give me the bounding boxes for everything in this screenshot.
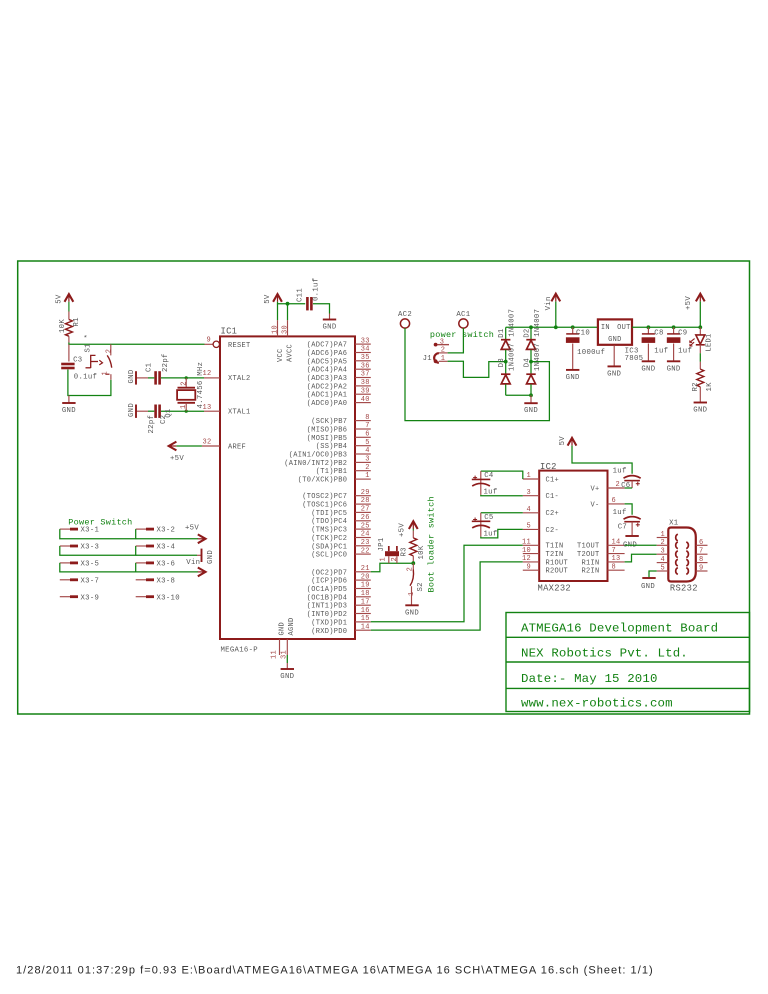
svg-text:(T0/XCK)PB0: (T0/XCK)PB0	[298, 477, 348, 485]
svg-text:6: 6	[612, 497, 617, 505]
IC1 pin 24 (TCK)PC2	[355, 537, 371, 539]
capacitor C4 1uf	[481, 471, 523, 479]
svg-text:XTAL2: XTAL2	[228, 375, 251, 383]
ground right of X3-4	[197, 554, 202, 556]
X1 pin 4	[657, 562, 669, 564]
svg-text:14: 14	[612, 539, 621, 547]
svg-text:(ICP)PD6: (ICP)PD6	[311, 578, 347, 586]
svg-text:1uf: 1uf	[613, 509, 627, 517]
svg-text:27: 27	[361, 506, 370, 514]
wire T1OUT to X1 pin2	[625, 544, 657, 546]
IC1 pin 20 (ICP)PD6	[355, 579, 371, 581]
svg-text:(TMS)PC3: (TMS)PC3	[311, 527, 347, 535]
svg-text:10K: 10K	[418, 545, 426, 559]
svg-text:MAX232: MAX232	[538, 584, 571, 594]
svg-text:11: 11	[522, 539, 531, 547]
wire C6 to V+ pin	[625, 487, 633, 489]
IC1 pin 39 (ADC1)PA1	[355, 393, 371, 395]
svg-text:37: 37	[361, 371, 370, 379]
svg-text:(TCK)PC2: (TCK)PC2	[311, 535, 347, 543]
IC1 pin 35 (ADC5)PA5	[355, 360, 371, 362]
supply +5V arrow (regulator output)	[698, 325, 702, 329]
svg-text:1: 1	[526, 472, 531, 480]
connector X1 DB9 shell	[668, 528, 696, 582]
ground below C10	[566, 369, 579, 371]
connector pin X3-7	[60, 579, 70, 581]
svg-text:GND: GND	[405, 609, 419, 617]
svg-text:1: 1	[101, 371, 109, 376]
svg-text:IC2: IC2	[540, 462, 557, 472]
svg-text:1: 1	[441, 355, 446, 363]
supply 5V arrow (MAX232)	[568, 438, 577, 446]
svg-text:X3-4: X3-4	[157, 544, 176, 552]
svg-text:10: 10	[522, 547, 531, 555]
svg-text:(SCL)PC0: (SCL)PC0	[311, 552, 347, 560]
connector pin X3-4	[136, 545, 146, 547]
wire IC1 GND pins to ground	[286, 655, 288, 663]
svg-text:14: 14	[361, 624, 370, 632]
svg-text:2: 2	[106, 349, 114, 354]
IC1 pin 29 (TOSC2)PC7	[355, 495, 371, 497]
svg-text:D4: D4	[524, 358, 532, 368]
IC1 pin 28 (TOSC1)PC6	[355, 503, 371, 505]
svg-text:5: 5	[365, 439, 370, 447]
svg-text:0.1uf: 0.1uf	[74, 373, 97, 381]
svg-text:20: 20	[361, 573, 370, 581]
capacitor C9 1uf	[672, 325, 676, 329]
svg-text:9: 9	[526, 563, 531, 571]
ground below IC1	[281, 668, 294, 670]
svg-text:(ADC7)PA7: (ADC7)PA7	[307, 342, 348, 350]
svg-text:RESET: RESET	[228, 342, 251, 350]
svg-text:4: 4	[526, 506, 531, 514]
IC2 pin 8 R2IN	[608, 569, 625, 571]
svg-text:GND: GND	[278, 622, 286, 636]
svg-text:4.7456 MHz: 4.7456 MHz	[197, 362, 205, 409]
svg-text:V+: V+	[590, 485, 599, 493]
svg-text:GND: GND	[128, 403, 136, 417]
wire XTAL2 net	[161, 377, 204, 379]
svg-text:Boot loader switch: Boot loader switch	[427, 496, 437, 592]
svg-text:XTAL1: XTAL1	[228, 409, 251, 417]
title block box	[506, 613, 750, 712]
wire R1IN to X1 pin3	[625, 554, 657, 562]
IC1 pin 9 RESET (inverted)	[205, 343, 213, 345]
IC1 pin 11 GND bottom	[279, 639, 281, 655]
svg-text:4: 4	[365, 447, 370, 455]
svg-text:1: 1	[408, 591, 416, 596]
IC2 pin 13 R1IN	[608, 561, 625, 563]
svg-text:(T1)PB1: (T1)PB1	[316, 468, 348, 476]
svg-text:3: 3	[661, 548, 666, 556]
svg-text:X3-1: X3-1	[81, 527, 100, 535]
svg-text:13: 13	[612, 555, 621, 563]
svg-text:C6: C6	[621, 482, 630, 490]
capacitor C8 1uf	[647, 325, 651, 329]
svg-text:T1OUT: T1OUT	[577, 543, 600, 551]
connector AC2	[400, 319, 409, 328]
svg-text:1: 1	[661, 531, 666, 539]
svg-text:Vin: Vin	[545, 296, 553, 310]
svg-text:AC2: AC2	[398, 311, 412, 319]
svg-text:C9: C9	[678, 330, 687, 338]
capacitor C7 1uf	[624, 517, 641, 520]
IC1 pin 7 (MISO)PB6	[355, 428, 371, 430]
svg-text:(ADC6)PA6: (ADC6)PA6	[307, 350, 348, 358]
wire J1 pin1 to bridge D1/D3	[448, 361, 506, 377]
IC2 pin 2 V+	[608, 487, 625, 489]
svg-text:AGND: AGND	[288, 617, 296, 635]
svg-text:3: 3	[526, 489, 531, 497]
svg-text:GND: GND	[524, 407, 538, 415]
svg-text:ATMEGA16 Development Board: ATMEGA16 Development Board	[521, 622, 718, 636]
diode D3 1N4007	[504, 360, 508, 364]
svg-text:11: 11	[271, 650, 279, 659]
wire IC1 TXD to MAX232 T1IN	[371, 545, 523, 622]
IC1 pin 22 (SCL)PC0	[355, 553, 371, 555]
IC1 pin 16 (INT0)PD2	[355, 613, 371, 615]
svg-text:X3-10: X3-10	[157, 594, 180, 602]
svg-text:+5V: +5V	[185, 525, 199, 533]
op IC3 7805 regulator	[598, 319, 632, 344]
svg-text:33: 33	[361, 337, 370, 345]
capacitor C1 22pf	[154, 371, 157, 384]
svg-text:7: 7	[365, 422, 370, 430]
ground below C11	[329, 314, 331, 320]
svg-text:19: 19	[361, 582, 370, 590]
svg-text:Q1: Q1	[165, 408, 173, 418]
svg-text:36: 36	[361, 362, 370, 370]
svg-text:X3-2: X3-2	[157, 527, 176, 535]
svg-text:40: 40	[361, 396, 370, 404]
svg-text:6: 6	[365, 431, 370, 439]
svg-text:8: 8	[699, 556, 704, 564]
svg-text:GND: GND	[641, 365, 655, 373]
svg-text:C2+: C2+	[546, 510, 560, 518]
svg-text:17: 17	[361, 598, 370, 606]
jumper JP1	[385, 551, 399, 556]
svg-text:AREF: AREF	[228, 444, 246, 452]
svg-text:C7: C7	[618, 523, 627, 531]
svg-text:2: 2	[661, 539, 666, 547]
svg-text:IN: IN	[601, 324, 610, 332]
svg-text:1: 1	[365, 472, 370, 480]
svg-text:3: 3	[440, 338, 445, 346]
svg-text:5V: 5V	[264, 294, 272, 304]
svg-text:C8: C8	[654, 330, 663, 338]
svg-text:22pf: 22pf	[148, 415, 156, 434]
led LED1	[699, 327, 701, 334]
svg-text:C2-: C2-	[546, 527, 560, 535]
svg-text:(ADC1)PA1: (ADC1)PA1	[307, 392, 348, 400]
svg-text:GND: GND	[608, 336, 622, 344]
supply +5V arrow right	[198, 534, 206, 543]
svg-text:(SS)PB4: (SS)PB4	[316, 443, 348, 451]
svg-text:X3-3: X3-3	[81, 544, 100, 552]
svg-text:29: 29	[361, 489, 370, 497]
svg-text:8: 8	[365, 414, 370, 422]
wire C4 bottom to C1- pin	[481, 494, 523, 497]
svg-text:2: 2	[365, 464, 370, 472]
supply 5V arrow (R1 top)	[65, 294, 74, 302]
svg-text:(SDA)PC1: (SDA)PC1	[311, 543, 347, 551]
svg-text:S1 *: S1 *	[85, 334, 93, 353]
svg-text:7: 7	[612, 547, 617, 555]
svg-text:(AIN0/INT2)PB2: (AIN0/INT2)PB2	[284, 460, 347, 468]
svg-text:22: 22	[361, 547, 370, 555]
diode D4 1N4007	[529, 360, 533, 364]
svg-text:(ADC4)PA4: (ADC4)PA4	[307, 367, 348, 375]
svg-text:(AIN1/OC0)PB3: (AIN1/OC0)PB3	[289, 452, 348, 460]
svg-text:GND: GND	[128, 369, 136, 383]
IC1 pin 13 XTAL1	[204, 410, 220, 412]
svg-text:LED1: LED1	[706, 333, 714, 351]
svg-text:6: 6	[699, 539, 704, 547]
X1 pin 7	[696, 553, 708, 555]
X1 pin 1	[657, 537, 669, 539]
wire IC1 RXD to MAX232 R1OUT	[371, 562, 523, 630]
capacitor C10 1000uf	[571, 325, 575, 329]
IC2 pin 3 C1-	[523, 495, 539, 497]
svg-text:28: 28	[361, 497, 370, 505]
svg-text:Power Switch: Power Switch	[68, 518, 132, 528]
IC2 pin 4 C2+	[523, 512, 539, 514]
supply 5V arrow (VCC)	[273, 294, 282, 302]
wire 5V to VCC/AVCC pins	[278, 302, 306, 304]
svg-text:0.1uf: 0.1uf	[313, 278, 321, 301]
ground below 7805	[613, 345, 615, 366]
node R3/S2/JP1 junction	[411, 561, 415, 565]
svg-text:D2: D2	[524, 328, 532, 337]
ground below C3/S1	[68, 396, 70, 403]
X1 pin 8	[696, 562, 708, 564]
svg-text:R2OUT: R2OUT	[546, 568, 569, 576]
IC1 pin 1 (T0/XCK)PB0	[355, 478, 371, 480]
IC1 pin 10 VCC top	[277, 320, 279, 336]
svg-text:R1: R1	[73, 317, 81, 327]
svg-text:X3-8: X3-8	[157, 577, 176, 585]
svg-text:4: 4	[661, 556, 666, 564]
svg-text:C1: C1	[146, 362, 154, 372]
svg-text:J1: J1	[423, 355, 433, 363]
wire bridge top rail to 7805 IN	[506, 326, 598, 328]
IC1 pin 37 (ADC3)PA3	[355, 377, 371, 379]
connector pin X3-2	[136, 528, 146, 530]
connector pin X3-1	[60, 528, 70, 530]
IC1 pin 27 (TDI)PC5	[355, 511, 371, 513]
svg-text:26: 26	[361, 514, 370, 522]
svg-text:5: 5	[661, 565, 666, 573]
svg-text:C1+: C1+	[546, 476, 560, 484]
wire 7805 OUT rail to +5V	[632, 326, 700, 328]
svg-text:(TOSC2)PC7: (TOSC2)PC7	[302, 493, 347, 501]
svg-text:(ADC0)PA0: (ADC0)PA0	[307, 400, 348, 408]
svg-text:X3-6: X3-6	[157, 561, 176, 569]
supply +5V arrow above R3	[409, 521, 418, 529]
svg-text:(ADC5)PA5: (ADC5)PA5	[307, 358, 348, 366]
svg-text:1: 1	[180, 404, 188, 409]
svg-text:(INT1)PD3: (INT1)PD3	[307, 603, 348, 611]
svg-text:2: 2	[616, 481, 621, 489]
ground below C7	[625, 535, 638, 537]
crystal Q1 4.7456 MHz	[185, 376, 188, 379]
svg-text:C5: C5	[484, 514, 493, 522]
svg-text:C3: C3	[73, 356, 82, 364]
svg-text:(MOSI)PB5: (MOSI)PB5	[307, 435, 348, 443]
svg-text:5: 5	[526, 523, 531, 531]
svg-text:(TOSC1)PC6: (TOSC1)PC6	[302, 502, 347, 510]
svg-text:GND: GND	[207, 550, 215, 564]
switch S2 boot	[412, 563, 414, 569]
supply Vin arrow right	[198, 568, 206, 577]
IC1 pin 25 (TMS)PC3	[355, 528, 371, 530]
svg-text:1/28/2011 01:37:29p f=0.93 E: 1/28/2011 01:37:29p f=0.93 E:\Board\ATME…	[16, 965, 654, 977]
svg-text:C10: C10	[576, 330, 590, 338]
svg-text:7: 7	[699, 548, 704, 556]
op IC1 box (ATmega16)	[220, 336, 355, 639]
svg-text:(ADC2)PA2: (ADC2)PA2	[307, 383, 348, 391]
svg-text:+5V: +5V	[399, 523, 407, 537]
svg-text:(TDO)PC4: (TDO)PC4	[311, 518, 347, 526]
svg-text:R1OUT: R1OUT	[546, 559, 569, 567]
supply Vin arrow (rail)	[554, 325, 558, 329]
wire C3 bottom to GND net	[68, 370, 111, 396]
svg-text:2: 2	[181, 381, 189, 386]
wire C5 bottom to C2- pin	[481, 529, 523, 538]
svg-text:T2OUT: T2OUT	[577, 551, 600, 559]
connector pin X3-10	[136, 596, 146, 598]
svg-text:24: 24	[361, 531, 370, 539]
svg-text:JP1: JP1	[378, 537, 386, 551]
svg-text:21: 21	[361, 565, 370, 573]
diode D2 1N4007	[530, 327, 532, 339]
ground below C8	[642, 360, 655, 362]
svg-text:32: 32	[202, 439, 211, 447]
svg-text:34: 34	[361, 346, 370, 354]
svg-text:V-: V-	[590, 501, 599, 509]
svg-text:GND: GND	[641, 583, 655, 591]
wire V- to C7	[625, 504, 633, 515]
svg-text:9: 9	[699, 565, 704, 573]
wire IC1 PD7 to JP1	[371, 563, 414, 572]
IC2 pin 6 V-	[608, 503, 625, 505]
svg-text:10: 10	[271, 325, 279, 334]
schematic frame border	[18, 261, 750, 714]
svg-text:(TXD)PD1: (TXD)PD1	[311, 619, 347, 627]
svg-text:Vin: Vin	[186, 559, 200, 567]
op IC2 box (MAX232)	[539, 471, 607, 581]
svg-text:GND: GND	[322, 324, 336, 332]
svg-text:D3: D3	[498, 358, 506, 367]
connector AC1	[459, 319, 468, 328]
IC2 pin 11 T1IN	[523, 544, 539, 546]
wire X3-3/X3-4 to GND	[60, 546, 136, 555]
ground below C9	[667, 360, 680, 362]
svg-text:7805: 7805	[625, 355, 644, 363]
wire X3-5/X3-6 to Vin	[60, 563, 136, 572]
svg-text:1uf: 1uf	[678, 348, 692, 356]
svg-text:3: 3	[365, 456, 370, 464]
svg-text:C11: C11	[297, 288, 305, 302]
svg-text:39: 39	[361, 387, 370, 395]
svg-text:8: 8	[612, 563, 617, 571]
svg-text:(RXD)PD0: (RXD)PD0	[311, 628, 347, 636]
wire X1 pin5 to GND	[649, 571, 657, 577]
IC1 pin 31 AGND bottom	[286, 639, 288, 655]
svg-text:D1: D1	[498, 328, 506, 338]
svg-text:AVCC: AVCC	[286, 344, 294, 362]
IC1 pin 26 (TDO)PC4	[355, 520, 371, 522]
svg-text:23: 23	[361, 539, 370, 547]
IC1 pin 36 (ADC4)PA4	[355, 368, 371, 370]
svg-text:35: 35	[361, 354, 370, 362]
ground below X1 pin5	[642, 577, 655, 579]
svg-text:38: 38	[361, 379, 370, 387]
svg-text:5V: 5V	[55, 294, 63, 304]
svg-text:R2: R2	[692, 382, 700, 391]
wire X3-1/X3-2 to +5V	[60, 529, 136, 539]
resistor R3 10K	[412, 529, 414, 531]
ground left of C1	[135, 371, 137, 384]
IC1 pin 6 (MOSI)PB5	[355, 436, 371, 438]
X1 pin 9	[696, 570, 708, 572]
svg-text:18: 18	[361, 590, 370, 598]
IC1 pin 12 XTAL2	[204, 377, 220, 379]
IC2 pin 7 T2OUT	[608, 553, 625, 555]
svg-text:25: 25	[361, 522, 370, 530]
ground left of C2	[135, 405, 137, 418]
svg-text:2: 2	[391, 557, 399, 562]
svg-text:22pf: 22pf	[162, 353, 170, 372]
wire R1 junction to RESET pin	[69, 343, 205, 345]
svg-text:(OC1A)PD5: (OC1A)PD5	[307, 586, 348, 594]
svg-text:GND: GND	[280, 673, 294, 681]
IC1 pin 8 (SCK)PB7	[355, 420, 371, 422]
svg-text:+5V: +5V	[685, 296, 693, 310]
svg-text:AC1: AC1	[456, 311, 470, 319]
IC2 pin 12 R1OUT	[523, 561, 539, 563]
svg-text:C1-: C1-	[546, 493, 560, 501]
svg-text:1N4007: 1N4007	[509, 343, 517, 371]
IC1 pin 14 (RXD)PD0	[355, 629, 371, 631]
svg-text:16: 16	[361, 607, 370, 615]
svg-text:1: 1	[379, 557, 387, 562]
IC2 pin 14 T1OUT	[608, 544, 625, 546]
IC1 pin 4 (AIN1/OC0)PB3	[355, 453, 371, 455]
connector pin X3-8	[136, 579, 146, 581]
svg-text:C4: C4	[484, 472, 494, 480]
svg-text:MEGA16-P: MEGA16-P	[221, 647, 258, 655]
resistor R1 10K	[68, 302, 70, 312]
svg-text:5V: 5V	[559, 436, 567, 446]
X1 pin 6	[696, 544, 708, 546]
svg-text:1N4007: 1N4007	[534, 343, 542, 371]
svg-text:R3: R3	[401, 547, 409, 556]
svg-text:GND: GND	[607, 370, 621, 378]
svg-text:X3-7: X3-7	[81, 577, 100, 585]
X1 pin 2	[657, 544, 669, 546]
svg-text:www.nex-robotics.com: www.nex-robotics.com	[521, 697, 673, 711]
capacitor C11 0.1uf	[306, 297, 309, 310]
IC1 pin 15 (TXD)PD1	[355, 621, 371, 623]
switch S1	[110, 344, 112, 355]
svg-text:(OC1B)PD4: (OC1B)PD4	[307, 594, 348, 602]
svg-text:(OC2)PD7: (OC2)PD7	[311, 569, 347, 577]
svg-text:1N4007: 1N4007	[534, 309, 542, 337]
IC1 pin 2 (T1)PB1	[355, 470, 371, 472]
svg-text:GND: GND	[693, 407, 707, 415]
capacitor C2 22pf	[154, 405, 157, 418]
